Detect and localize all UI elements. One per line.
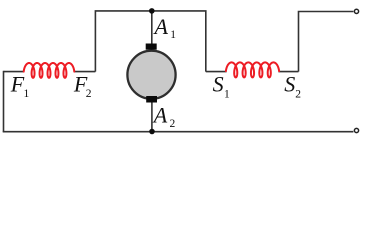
svg-text:A: A	[152, 103, 168, 128]
svg-text:1: 1	[170, 29, 176, 41]
svg-text:2: 2	[170, 118, 176, 130]
svg-text:A: A	[153, 14, 169, 39]
svg-text:S: S	[213, 72, 224, 97]
svg-text:2: 2	[295, 88, 301, 100]
svg-text:S: S	[284, 72, 295, 97]
svg-text:1: 1	[24, 88, 30, 100]
svg-text:2: 2	[86, 88, 92, 100]
svg-text:1: 1	[224, 88, 230, 100]
